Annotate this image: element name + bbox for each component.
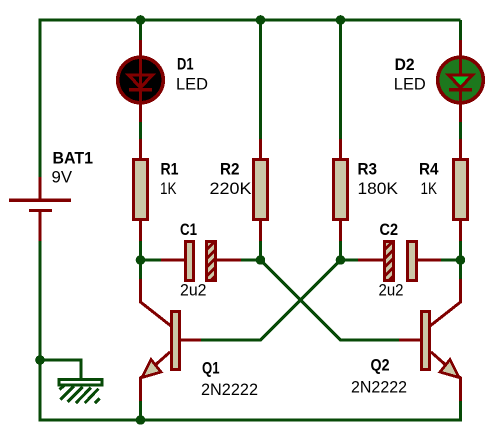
svg-text:D1: D1 (177, 56, 194, 74)
svg-text:C1: C1 (180, 221, 197, 239)
LED D1 pin wire through body (139, 40, 142, 122)
svg-text:1K: 1K (160, 180, 177, 198)
junction node A (R1/C1/Q1 collector) (136, 255, 146, 265)
wire: R3 top from rail (339, 20, 342, 139)
junction at R2 top (256, 15, 266, 25)
capacitor C1 right plate (hatched negative) (207, 242, 216, 281)
LED D1 cathode bar (129, 88, 152, 91)
svg-text:R2: R2 (220, 161, 240, 179)
resistor R4 body (454, 160, 468, 220)
wire: node D down to Q2 collector (459, 260, 462, 279)
svg-text:C2: C2 (380, 221, 399, 239)
svg-text:Q1: Q1 (202, 360, 220, 378)
junction node C (R3/C2/Q1 base) (336, 255, 346, 265)
transistor Q2 emitter lead (431, 352, 461, 401)
LED D2 cathode bar (449, 88, 472, 91)
svg-text:D2: D2 (395, 56, 415, 74)
LED D2 diode triangle (lit) (449, 75, 473, 88)
svg-text:2N2222: 2N2222 (201, 381, 258, 399)
transistor Q2 collector lead (430, 279, 461, 326)
resistor R2 body (254, 160, 268, 220)
junction at ground tap (35, 355, 45, 365)
wire: node C diagonal to Q1 base run (201, 260, 341, 340)
LED D1 body (118, 57, 164, 103)
resistor R3 body (334, 160, 348, 220)
svg-text:2N2222: 2N2222 (351, 379, 407, 397)
svg-text:2u2: 2u2 (180, 282, 207, 300)
wire: D1 cathode to R1 top (139, 122, 142, 140)
transistor Q2 base bar (422, 312, 430, 370)
transistor Q2 base pin (399, 339, 420, 342)
svg-text:1K: 1K (421, 180, 438, 198)
capacitor C2 left pin (358, 259, 384, 262)
svg-text:2u2: 2u2 (379, 282, 404, 300)
wire: ground tap from left rail (40, 360, 81, 380)
LED D2 pin wire through body (459, 40, 462, 122)
svg-text:R1: R1 (161, 161, 179, 179)
junction at Q1 emitter / bottom rail (136, 415, 146, 425)
junction at R3 top (336, 15, 346, 25)
wire: R4 bottom to node D (459, 240, 462, 260)
junction node D (R4/C2/Q2 collector) (456, 255, 466, 265)
svg-text:LED: LED (394, 76, 426, 94)
capacitor C1 left pin (161, 259, 184, 262)
svg-text:BAT1: BAT1 (53, 150, 94, 168)
wire: left rail upper (battery + to top rail) (39, 19, 42, 178)
transistor Q2 emitter arrow (440, 360, 459, 378)
transistor Q1 base pin (181, 339, 201, 342)
resistor R1 top pin (139, 139, 142, 159)
svg-text:180K: 180K (358, 180, 399, 198)
resistor R2 top pin (259, 139, 262, 159)
battery BAT1 top pin (39, 177, 42, 199)
wire: C2 right to node D (441, 259, 461, 262)
wire: Q2 emitter to bottom rail (459, 401, 462, 422)
resistor R3 top pin (339, 139, 342, 159)
resistor R1 body (134, 160, 148, 220)
transistor Q1 emitter arrow (142, 360, 161, 378)
wire: D1 anode from top rail (139, 20, 142, 40)
resistor R2 bottom pin (259, 220, 262, 241)
capacitor C1 right pin (217, 259, 241, 262)
wire: D2 cathode to R4 top (459, 122, 462, 140)
LED D2 body (438, 57, 484, 103)
capacitor C2 right pin (417, 259, 441, 262)
wire: D2 anode from top rail (459, 20, 462, 40)
battery BAT1 positive plate (9, 199, 71, 203)
svg-text:9V: 9V (52, 169, 73, 187)
transistor Q1 emitter lead (141, 352, 171, 401)
wire: Q1 emitter to bottom rail (139, 401, 142, 420)
capacitor C2 left plate (hatched negative) (385, 242, 394, 281)
capacitor C1 left plate (186, 242, 194, 281)
wire: left rail lower (battery - down to bottom rail) (39, 241, 42, 422)
wire: R2 top from rail (259, 20, 262, 139)
resistor R1 bottom pin (139, 220, 142, 241)
junction node B (R2/C1/Q2 base) (256, 255, 266, 265)
resistor R3 bottom pin (339, 220, 342, 241)
wire: top power rail (40, 19, 461, 22)
wire: node C to C2 left (341, 259, 359, 262)
transistor Q1 base bar (172, 312, 180, 370)
resistor R4 bottom pin (459, 220, 462, 241)
svg-text:R4: R4 (419, 161, 439, 179)
ground symbol (59, 380, 102, 386)
wire: node A to C1 left (141, 259, 162, 262)
wire: R2 bottom to node B (259, 240, 262, 260)
wire: R1 bottom to node A (139, 240, 142, 260)
wire: C1 right to node B (241, 259, 261, 262)
wire: node B diagonal to Q2 base run (261, 260, 400, 340)
transistor Q1 collector lead (141, 279, 172, 326)
svg-text:LED: LED (176, 76, 208, 94)
svg-text:Q2: Q2 (371, 356, 390, 374)
wire: bottom ground rail (39, 419, 461, 422)
junction at D1 top (136, 15, 146, 25)
battery BAT1 bottom pin (39, 212, 42, 241)
svg-text:R3: R3 (358, 161, 378, 179)
svg-text:220K: 220K (210, 180, 252, 198)
wire: node A down to Q1 collector (139, 260, 142, 279)
wire: R3 bottom to node C (339, 240, 342, 260)
resistor R4 top pin (459, 139, 462, 159)
capacitor C2 right plate (408, 242, 417, 281)
battery BAT1 negative plate (29, 209, 52, 212)
LED D1 diode triangle (129, 75, 153, 88)
